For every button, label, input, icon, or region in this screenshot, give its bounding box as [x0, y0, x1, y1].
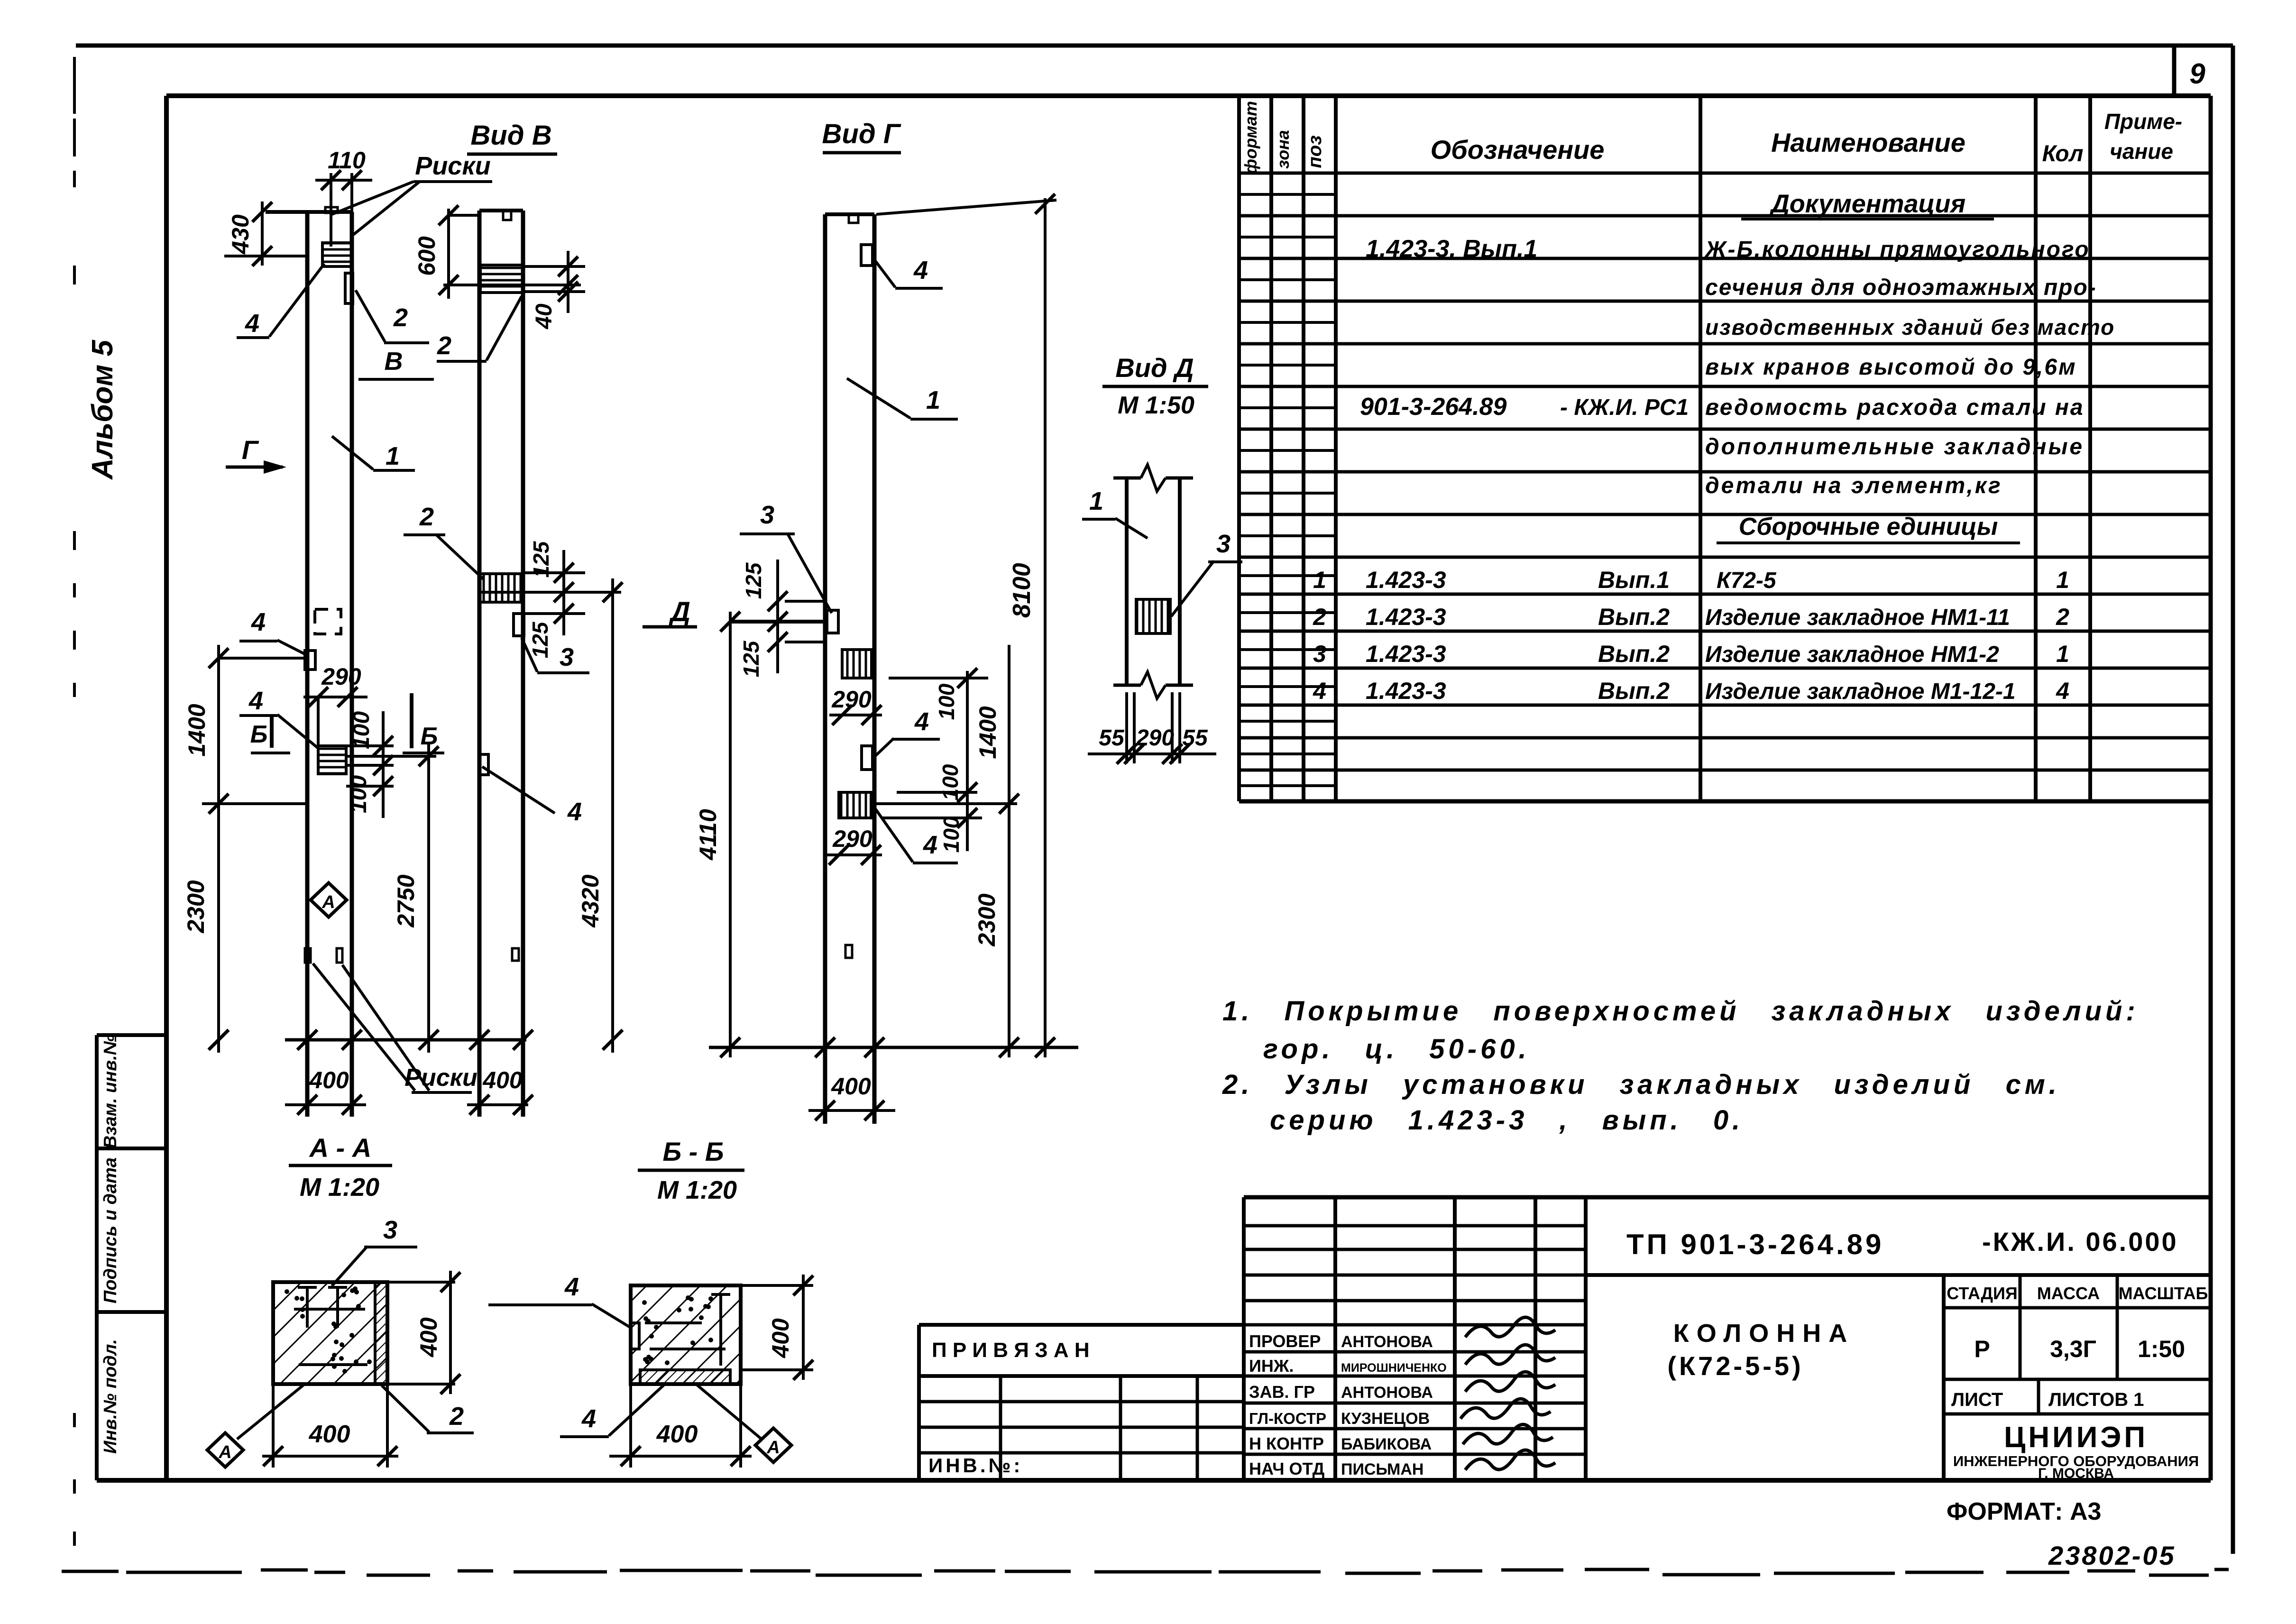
svg-text:1. Покрытие поверхностей закла: 1. Покрытие поверхностей закладных издел…: [1222, 996, 2139, 1027]
svg-text:2: 2: [449, 1402, 464, 1431]
svg-text:125: 125: [529, 541, 553, 578]
svg-text:ИНЖ.: ИНЖ.: [1249, 1356, 1294, 1376]
svg-text:1: 1: [386, 442, 400, 470]
svg-text:400: 400: [415, 1317, 442, 1358]
svg-text:1: 1: [2056, 567, 2069, 593]
svg-text:1: 1: [1313, 567, 1326, 593]
svg-text:100: 100: [349, 711, 374, 749]
svg-text:дополнительные закладные: дополнительные закладные: [1705, 434, 2084, 459]
svg-text:чание: чание: [2110, 139, 2173, 164]
svg-text:2: 2: [419, 503, 434, 531]
svg-text:Вып.1: Вып.1: [1598, 567, 1670, 593]
svg-text:Риски: Риски: [415, 152, 490, 180]
svg-text:430: 430: [227, 214, 254, 255]
svg-text:3: 3: [383, 1216, 397, 1244]
svg-text:вых кранов высотой до 9,6м: вых кранов высотой до 9,6м: [1705, 355, 2077, 380]
svg-text:Б - Б: Б - Б: [662, 1137, 724, 1166]
svg-text:290: 290: [831, 686, 872, 713]
svg-text:Обозначение: Обозначение: [1431, 135, 1605, 165]
svg-text:55: 55: [1182, 725, 1208, 751]
svg-text:ФОРМАТ: А3: ФОРМАТ: А3: [1947, 1498, 2101, 1525]
svg-text:МАССА: МАССА: [2037, 1284, 2100, 1303]
svg-text:Инв.№ подл.: Инв.№ подл.: [101, 1339, 120, 1454]
svg-text:КУЗНЕЦОВ: КУЗНЕЦОВ: [1341, 1410, 1430, 1428]
svg-text:СТАДИЯ: СТАДИЯ: [1947, 1284, 2018, 1303]
svg-text:Д: Д: [668, 596, 690, 627]
svg-text:изводственных зданий без масто: изводственных зданий без масто: [1705, 315, 2115, 339]
svg-text:Изделие закладное М1-12-1: Изделие закладное М1-12-1: [1705, 679, 2016, 704]
svg-text:КОЛОННА: КОЛОННА: [1673, 1319, 1855, 1348]
svg-text:ТП 901-3-264.89: ТП 901-3-264.89: [1626, 1229, 1884, 1260]
svg-text:1.423-3: 1.423-3: [1366, 604, 1446, 630]
svg-text:3: 3: [1313, 641, 1326, 667]
svg-text:ЗАВ. ГР: ЗАВ. ГР: [1249, 1382, 1315, 1402]
svg-text:АНТОНОВА: АНТОНОВА: [1341, 1333, 1433, 1351]
svg-text:Документация: Документация: [1769, 190, 1965, 218]
svg-text:А - А: А - А: [309, 1133, 372, 1163]
svg-text:Вып.2: Вып.2: [1598, 604, 1670, 630]
svg-text:40: 40: [532, 303, 557, 330]
svg-text:1: 1: [1089, 487, 1103, 515]
svg-text:290: 290: [1136, 725, 1174, 751]
svg-text:Альбом 5: Альбом 5: [86, 339, 119, 480]
svg-text:Риски: Риски: [404, 1064, 478, 1092]
svg-text:125: 125: [528, 621, 552, 658]
svg-text:Н КОНТР: Н КОНТР: [1249, 1434, 1324, 1453]
svg-text:4: 4: [581, 1404, 596, 1433]
svg-text:ПИСЬМАН: ПИСЬМАН: [1341, 1460, 1424, 1478]
svg-text:4: 4: [245, 309, 259, 338]
svg-text:4: 4: [923, 831, 937, 859]
svg-text:гор. ц. 50-60.: гор. ц. 50-60.: [1263, 1034, 1530, 1064]
svg-text:3: 3: [560, 643, 574, 671]
svg-text:2300: 2300: [974, 893, 1000, 946]
svg-text:ЦНИИЭП: ЦНИИЭП: [2004, 1421, 2148, 1454]
svg-text:2: 2: [1313, 604, 1326, 630]
svg-text:Вид Г: Вид Г: [822, 119, 901, 149]
svg-text:МАСШТАБ: МАСШТАБ: [2119, 1284, 2208, 1303]
svg-text:М 1:50: М 1:50: [1118, 392, 1194, 419]
svg-text:2: 2: [393, 303, 408, 332]
svg-text:125: 125: [741, 562, 766, 599]
svg-text:Г: Г: [242, 435, 259, 465]
svg-text:МИРОШНИЧЕНКО: МИРОШНИЧЕНКО: [1341, 1361, 1447, 1375]
svg-text:сечения для одноэтажных про-: сечения для одноэтажных про-: [1705, 275, 2097, 300]
svg-text:4: 4: [1313, 678, 1326, 704]
svg-text:ГЛ-КОСТР: ГЛ-КОСТР: [1249, 1410, 1326, 1427]
svg-text:290: 290: [321, 663, 361, 690]
svg-text:23802-05: 23802-05: [2048, 1541, 2176, 1570]
svg-text:-КЖ.И. 06.000: -КЖ.И. 06.000: [1982, 1227, 2178, 1257]
svg-text:901-3-264.89: 901-3-264.89: [1360, 393, 1506, 421]
svg-text:1400: 1400: [974, 706, 1001, 759]
svg-text:В: В: [385, 347, 403, 376]
svg-text:1: 1: [2056, 641, 2069, 667]
svg-text:3: 3: [1216, 530, 1231, 558]
svg-text:детали на элемент,кг: детали на элемент,кг: [1705, 473, 2002, 498]
svg-text:1400: 1400: [184, 704, 210, 756]
svg-text:Сборочные единицы: Сборочные единицы: [1739, 513, 1998, 541]
svg-text:ПРОВЕР: ПРОВЕР: [1249, 1331, 1321, 1351]
svg-text:серию 1.423-3 , вып. 0.: серию 1.423-3 , вып. 0.: [1270, 1105, 1744, 1136]
svg-text:100: 100: [939, 816, 964, 853]
svg-text:400: 400: [831, 1073, 871, 1100]
svg-text:Изделие закладное НМ1-2: Изделие закладное НМ1-2: [1705, 642, 1999, 667]
svg-text:4: 4: [248, 687, 263, 715]
svg-text:Г. МОСКВА: Г. МОСКВА: [2038, 1466, 2114, 1481]
svg-text:1:50: 1:50: [2138, 1336, 2185, 1362]
svg-text:ИНВ.№:: ИНВ.№:: [928, 1454, 1023, 1477]
svg-text:А: А: [218, 1442, 231, 1462]
svg-text:125: 125: [739, 640, 763, 677]
svg-text:Вып.2: Вып.2: [1598, 678, 1670, 704]
svg-text:4110: 4110: [695, 809, 721, 861]
svg-text:М 1:20: М 1:20: [657, 1176, 737, 1204]
svg-text:Б: Б: [250, 721, 268, 748]
svg-text:400: 400: [309, 1067, 349, 1093]
svg-text:110: 110: [328, 147, 366, 174]
svg-text:Кол: Кол: [2042, 141, 2084, 166]
svg-text:П Р И В Я З А Н: П Р И В Я З А Н: [932, 1339, 1090, 1362]
svg-text:Подпись и дата: Подпись и дата: [101, 1157, 120, 1303]
svg-text:1: 1: [926, 386, 940, 414]
svg-text:поз: поз: [1304, 135, 1325, 168]
svg-text:Вид Д: Вид Д: [1115, 353, 1194, 383]
svg-text:2: 2: [437, 331, 451, 360]
svg-text:А: А: [321, 892, 335, 912]
svg-text:Взам. инв.№: Взам. инв.№: [101, 1035, 120, 1148]
svg-text:400: 400: [482, 1067, 523, 1093]
svg-text:1.423-3: 1.423-3: [1366, 567, 1446, 593]
svg-text:Изделие закладное НМ1-11: Изделие закладное НМ1-11: [1705, 605, 2010, 630]
svg-text:К72-5: К72-5: [1717, 568, 1777, 593]
svg-text:290: 290: [832, 826, 872, 852]
svg-text:4: 4: [914, 707, 929, 736]
svg-text:2300: 2300: [183, 880, 209, 933]
svg-text:3: 3: [760, 501, 774, 529]
svg-text:2. Узлы установки закладных из: 2. Узлы установки закладных изделий см.: [1222, 1069, 2060, 1100]
svg-text:400: 400: [309, 1421, 350, 1448]
svg-text:Вып.2: Вып.2: [1598, 641, 1670, 667]
svg-text:формат: формат: [1241, 101, 1260, 174]
svg-text:зона: зона: [1273, 130, 1293, 169]
svg-text:ЛИСТОВ 1: ЛИСТОВ 1: [2048, 1389, 2144, 1410]
svg-text:АНТОНОВА: АНТОНОВА: [1341, 1384, 1433, 1402]
svg-text:400: 400: [767, 1318, 794, 1358]
svg-text:2750: 2750: [393, 874, 419, 927]
svg-text:- КЖ.И. РС1: - КЖ.И. РС1: [1560, 395, 1689, 420]
svg-text:100: 100: [938, 764, 963, 800]
svg-text:ЛИСТ: ЛИСТ: [1951, 1389, 2003, 1410]
svg-text:М 1:20: М 1:20: [300, 1173, 379, 1202]
svg-text:Р: Р: [1974, 1336, 1990, 1362]
svg-text:3,3Г: 3,3Г: [2050, 1336, 2096, 1362]
svg-text:600: 600: [413, 236, 440, 276]
svg-text:1.423-3. Вып.1: 1.423-3. Вып.1: [1366, 235, 1537, 263]
svg-text:400: 400: [656, 1421, 698, 1448]
svg-text:4: 4: [913, 256, 928, 284]
svg-text:Ж-Б.колонны прямоугольного: Ж-Б.колонны прямоугольного: [1704, 237, 2090, 262]
svg-text:(К72-5-5): (К72-5-5): [1667, 1351, 1803, 1381]
svg-text:2: 2: [2056, 604, 2069, 630]
svg-text:8100: 8100: [1008, 563, 1036, 618]
svg-text:4: 4: [2056, 678, 2069, 704]
svg-text:1.423-3: 1.423-3: [1366, 641, 1446, 667]
svg-text:Наименование: Наименование: [1771, 128, 1965, 157]
svg-text:4: 4: [564, 1273, 579, 1301]
svg-text:4320: 4320: [577, 874, 604, 927]
svg-text:БАБИКОВА: БАБИКОВА: [1341, 1435, 1432, 1453]
svg-text:А: А: [766, 1438, 780, 1458]
svg-text:9: 9: [2189, 58, 2205, 90]
svg-text:55: 55: [1099, 725, 1125, 751]
svg-text:100: 100: [346, 775, 371, 813]
svg-text:ведомость расхода стали на: ведомость расхода стали на: [1705, 395, 2085, 420]
svg-text:4: 4: [567, 798, 582, 826]
svg-text:Приме-: Приме-: [2104, 109, 2182, 134]
svg-text:100: 100: [934, 683, 959, 720]
svg-text:НАЧ ОТД: НАЧ ОТД: [1249, 1459, 1324, 1478]
svg-text:1.423-3: 1.423-3: [1366, 678, 1446, 704]
svg-text:Вид В: Вид В: [470, 120, 551, 151]
svg-text:4: 4: [251, 608, 266, 636]
